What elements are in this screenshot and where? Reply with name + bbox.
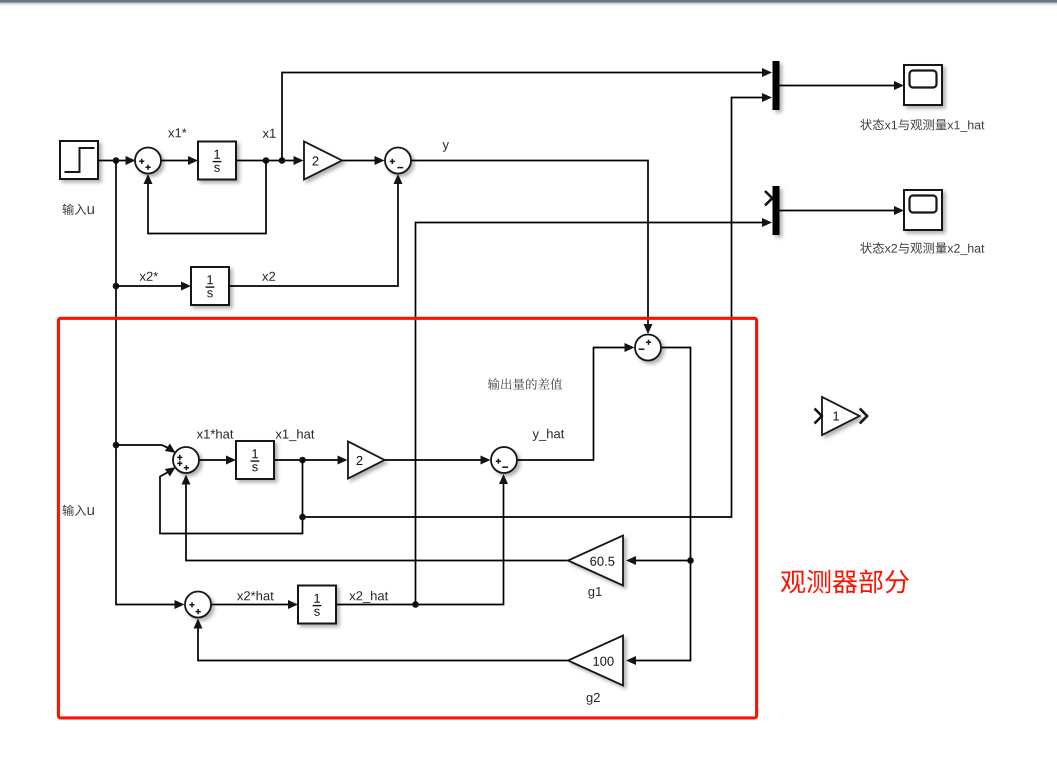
wire gain to sum4	[385, 459, 489, 461]
gain1 output chevron	[860, 409, 867, 424]
sum S4 (y_hat)	[491, 447, 517, 473]
wire x2: integrator to sum2 minus	[230, 177, 399, 286]
label 1 of unconnected gain	[833, 412, 839, 421]
gain 2 (C)	[304, 142, 342, 180]
junction x1 feedback	[263, 157, 270, 164]
observer red box	[58, 318, 756, 718]
annotation 观测器部分 (red)	[781, 569, 909, 593]
annotation 输出量的差值	[488, 378, 562, 390]
junction u to sum5	[113, 442, 120, 449]
label x1*hat	[197, 429, 234, 439]
window top edge band	[0, 0, 1057, 2]
wire x1: integrator to gain2	[237, 160, 302, 162]
junction x1_hat	[299, 457, 306, 464]
sum S5 (observer x1hat)	[173, 447, 199, 473]
wire g1 output to sum5 bottom	[186, 478, 568, 561]
wire gain2 to sum2	[342, 160, 382, 162]
label 输入u (observer)	[63, 505, 94, 516]
wire u vertical down to sum6	[116, 161, 182, 605]
label 60.5 of g1	[590, 557, 614, 566]
label x2*hat	[237, 591, 274, 601]
junction x1_hat lower	[299, 514, 306, 521]
sum S1	[135, 148, 161, 174]
label x1	[263, 129, 276, 138]
wire x2_hat up to mux2 input2	[416, 223, 763, 605]
label x1*	[168, 128, 186, 137]
label 1/s of integrator x1hat	[252, 449, 258, 458]
wire mux1 to scope1	[780, 85, 895, 87]
label x2_hat	[349, 591, 388, 603]
label g2	[587, 693, 600, 705]
wire sum6 to integrator x2hat	[212, 604, 296, 606]
label g1	[588, 587, 601, 599]
wire step to sum1	[99, 160, 134, 162]
label scope2 状态x2与观测量x2_hat	[860, 242, 984, 255]
junction x2_hat	[412, 601, 419, 608]
wire y_hat: sum4 to sum3	[518, 348, 633, 461]
scope2	[904, 190, 942, 230]
label x1_hat	[276, 429, 315, 441]
wire x1_hat: integrator to gain	[275, 459, 346, 461]
wire sum3 output down to g2	[636, 348, 691, 661]
junction u to x2 integrator	[113, 283, 120, 290]
unconnected gain 1 block	[822, 397, 860, 435]
label 1/s of integrator x2hat	[314, 594, 320, 603]
mux Mux1	[773, 61, 780, 110]
wire error to g1	[636, 560, 691, 562]
gain 2 (observer C)	[348, 442, 385, 479]
wire u diagonal into sum5	[116, 445, 168, 448]
integrator 1/s (x2)	[191, 267, 229, 305]
wire x2_hat to sum4 bottom	[337, 477, 504, 605]
wire x1 feedback loop to sum1	[148, 161, 266, 234]
junction x1 to mux	[279, 157, 286, 164]
wire mux2 to scope2	[780, 210, 895, 212]
label 100 of g2	[593, 657, 613, 666]
label y	[443, 142, 449, 152]
label 2 of observer gain C	[357, 456, 363, 465]
mux Mux2	[773, 186, 780, 235]
junction u-line	[113, 157, 120, 164]
integrator 1/s (x1hat)	[236, 441, 274, 479]
label x2*	[140, 272, 158, 281]
label x2	[262, 272, 275, 281]
gain g1 60.5 (points left)	[568, 536, 623, 586]
label 输入u (top step source)	[63, 204, 94, 215]
label y_hat	[533, 429, 565, 441]
label scope1 状态x1与观测量x1_hat	[860, 119, 984, 132]
label 1/s of integrator x2	[207, 275, 213, 284]
label 1/s of integrator x1	[214, 150, 220, 159]
wire x1 up to mux1 input1	[282, 73, 762, 161]
wire x1_hat feedback to sum5 lower input	[160, 472, 303, 533]
scope1	[904, 65, 942, 105]
wire g2 output to sum6 bottom	[198, 622, 568, 661]
junction error to g1	[687, 557, 694, 564]
wire y: sum2 to sum3	[412, 161, 649, 332]
sum S2 (y = Cx1 - x2)	[385, 148, 411, 174]
mux2 unconnected input chevron	[765, 191, 772, 205]
wire sum5 to integrator x1hat	[200, 459, 234, 461]
gain1 input chevron	[815, 409, 822, 424]
wire sum1 to integrator x1	[162, 160, 196, 162]
sum S3 (output error)	[635, 335, 661, 361]
gain g2 100 (points left)	[568, 636, 623, 686]
integrator 1/s (x1)	[198, 142, 236, 180]
label 2 of gain C	[313, 156, 319, 165]
step source block	[60, 141, 98, 179]
integrator 1/s (x2hat)	[298, 586, 336, 624]
sum S6 (observer x2hat)	[185, 592, 211, 618]
wire x1_hat down and across to mux1 input2	[303, 98, 763, 518]
wire u to integrator x2	[116, 285, 189, 287]
